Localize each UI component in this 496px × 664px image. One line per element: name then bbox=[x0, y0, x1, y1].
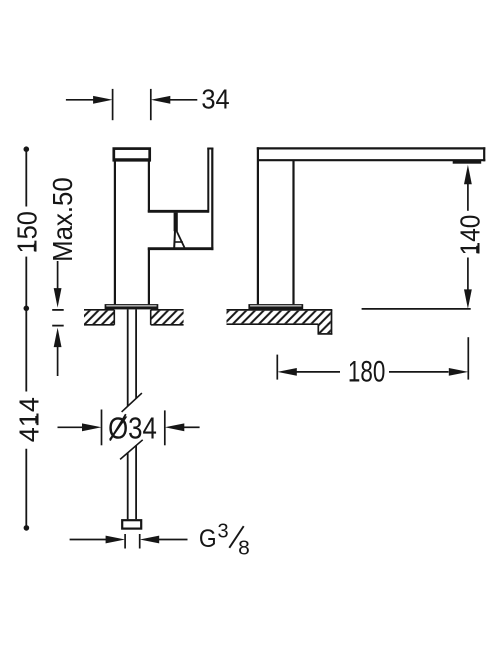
svg-text:Ø34: Ø34 bbox=[108, 412, 157, 447]
svg-text:G: G bbox=[199, 525, 217, 553]
svg-text:140: 140 bbox=[454, 215, 486, 256]
svg-text:Max.50: Max.50 bbox=[47, 177, 78, 262]
svg-text:8: 8 bbox=[238, 537, 250, 559]
svg-text:150: 150 bbox=[11, 211, 42, 253]
svg-text:414: 414 bbox=[13, 397, 44, 442]
svg-text:34: 34 bbox=[201, 84, 229, 115]
svg-text:180: 180 bbox=[348, 354, 385, 388]
svg-text:3: 3 bbox=[218, 520, 229, 542]
